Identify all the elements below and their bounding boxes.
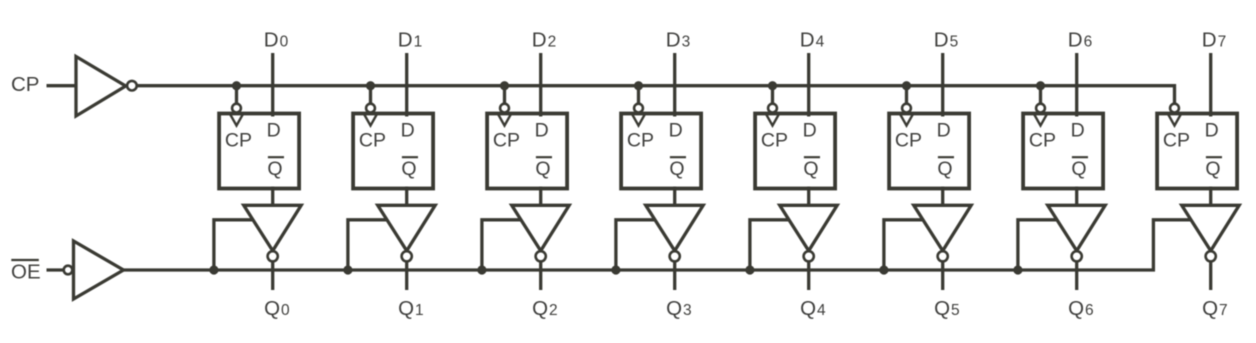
wire CP input (47, 84, 77, 87)
overbar on Q of FF1 (402, 156, 418, 158)
svg-text:CP: CP (493, 130, 520, 152)
wire Q4 output (807, 261, 810, 290)
svg-text:D: D (937, 120, 951, 142)
tri-state inverter T2 (512, 205, 570, 251)
tri-state inverter T6 (1048, 205, 1106, 251)
wire CP trunk (137, 86, 1175, 105)
wire clock branch 1 (369, 86, 372, 105)
svg-text:CP: CP (895, 130, 922, 152)
junction clock tap 6 (1036, 81, 1045, 90)
flip-flop FF2 body (487, 114, 567, 189)
svg-text:D: D (803, 120, 817, 142)
svg-text:Q: Q (267, 158, 282, 180)
svg-text:Q5: Q5 (934, 297, 960, 320)
svg-text:Q: Q (535, 158, 550, 180)
svg-text:D7: D7 (1202, 29, 1226, 52)
wire Q0 output (271, 261, 274, 290)
flip-flop FF0 body (219, 114, 299, 189)
svg-text:CP: CP (1163, 130, 1190, 152)
svg-text:D: D (669, 120, 683, 142)
flip-flop FF7 body (1157, 114, 1237, 189)
wire enable branch 2 (482, 220, 522, 270)
inversion bubble U1 output (127, 81, 137, 91)
svg-text:D: D (401, 120, 415, 142)
junction clock tap 2 (500, 81, 509, 90)
edge-trigger mark FF3 (632, 114, 645, 125)
svg-text:Q: Q (1071, 158, 1086, 180)
wire clock branch 0 (235, 86, 238, 105)
inversion bubble T2 output (536, 251, 546, 261)
svg-text:D0: D0 (264, 29, 289, 52)
inversion bubble FF0 clock (232, 104, 241, 113)
junction clock tap 3 (634, 81, 643, 90)
wire enable branch 5 (884, 220, 924, 270)
buffer U2 (OE driver) (74, 241, 124, 299)
svg-text:Q4: Q4 (800, 297, 826, 320)
wire enable branch 0 (214, 220, 254, 270)
inverter U1 (CP buffer) (76, 57, 126, 117)
flip-flop FF6 body (1023, 114, 1103, 189)
inversion bubble T1 output (402, 251, 412, 261)
wire FF3 Q-bar to buffer (673, 187, 676, 207)
wire Q3 output (673, 261, 676, 290)
wire D0 input (271, 53, 274, 117)
overbar on Q of FF5 (938, 156, 954, 158)
wire D3 input (673, 53, 676, 117)
wire Q6 output (1075, 261, 1078, 290)
edge-trigger mark FF5 (900, 114, 913, 125)
flip-flop FF5 body (889, 114, 969, 189)
inversion bubble T5 output (938, 251, 948, 261)
svg-text:Q: Q (669, 158, 684, 180)
tri-state inverter T5 (914, 205, 972, 251)
svg-text:D: D (535, 120, 549, 142)
junction clock tap 4 (768, 81, 777, 90)
overbar on Q of FF0 (268, 156, 284, 158)
edge-trigger mark FF0 (230, 114, 243, 125)
wire enable branch 4 (750, 220, 790, 270)
junction clock tap 0 (232, 81, 241, 90)
wire clock branch 5 (905, 86, 908, 105)
tri-state inverter T3 (646, 205, 704, 251)
edge-trigger mark FF4 (766, 114, 779, 125)
junction enable tap 5 (879, 265, 888, 274)
inversion bubble FF3 clock (634, 104, 643, 113)
junction enable tap 6 (1013, 265, 1022, 274)
wire D5 input (941, 53, 944, 117)
inversion bubble FF2 clock (500, 104, 509, 113)
svg-text:D3: D3 (666, 29, 690, 52)
svg-text:Q: Q (803, 158, 818, 180)
svg-text:D5: D5 (934, 29, 958, 52)
wire clock branch 3 (637, 86, 640, 105)
junction enable tap 1 (343, 265, 352, 274)
svg-text:Q: Q (1205, 158, 1220, 180)
svg-text:D1: D1 (398, 29, 422, 52)
overbar on Q of FF4 (804, 156, 820, 158)
svg-text:OE: OE (11, 261, 41, 284)
inversion bubble FF1 clock (366, 104, 375, 113)
wire enable branch 3 (616, 220, 656, 270)
wire D7 input (1209, 53, 1212, 117)
inversion bubble FF7 clock (1170, 104, 1179, 113)
wire Q1 output (405, 261, 408, 290)
wire FF1 Q-bar to buffer (405, 187, 408, 207)
tri-state inverter T7 (1182, 205, 1240, 251)
svg-text:D: D (267, 120, 281, 142)
inversion bubble FF6 clock (1036, 104, 1045, 113)
inversion bubble T0 output (268, 251, 278, 261)
wire FF0 Q-bar to buffer (271, 187, 274, 207)
junction enable tap 2 (477, 265, 486, 274)
inversion bubble T6 output (1072, 251, 1082, 261)
junction clock tap 5 (902, 81, 911, 90)
inversion bubble U2 input (64, 266, 73, 275)
overbar on Q of FF2 (536, 156, 552, 158)
svg-text:CP: CP (627, 130, 654, 152)
flip-flop FF1 body (353, 114, 433, 189)
svg-text:CP: CP (11, 73, 39, 96)
junction enable tap 4 (745, 265, 754, 274)
junction enable tap 0 (209, 265, 218, 274)
wire D1 input (405, 53, 408, 117)
svg-text:D2: D2 (532, 29, 556, 52)
wire FF7 Q-bar to buffer (1209, 187, 1212, 207)
wire Q2 output (539, 261, 542, 290)
svg-text:Q7: Q7 (1202, 297, 1228, 320)
svg-text:Q: Q (401, 158, 416, 180)
wire enable branch 6 (1018, 220, 1058, 270)
wire clock branch 2 (503, 86, 506, 105)
wire FF5 Q-bar to buffer (941, 187, 944, 207)
inversion bubble T7 output (1206, 251, 1216, 261)
svg-text:CP: CP (359, 130, 386, 152)
flip-flop FF4 body (755, 114, 835, 189)
svg-text:Q3: Q3 (666, 297, 692, 320)
svg-text:D: D (1071, 120, 1085, 142)
svg-text:D6: D6 (1068, 29, 1092, 52)
wire FF2 Q-bar to buffer (539, 187, 542, 207)
wire D4 input (807, 53, 810, 117)
tri-state inverter T4 (780, 205, 838, 251)
edge-trigger mark FF7 (1168, 114, 1181, 125)
svg-text:D: D (1205, 120, 1219, 142)
inversion bubble FF5 clock (902, 104, 911, 113)
svg-text:CP: CP (1029, 130, 1056, 152)
wire FF4 Q-bar to buffer (807, 187, 810, 207)
overbar on Q of FF7 (1206, 156, 1222, 158)
inversion bubble T4 output (804, 251, 814, 261)
wire OE input (47, 268, 64, 271)
overbar on OE label (11, 259, 39, 261)
tri-state inverter T1 (378, 205, 436, 251)
wire clock branch 6 (1039, 86, 1042, 105)
edge-trigger mark FF2 (498, 114, 511, 125)
wire clock branch 4 (771, 86, 774, 105)
edge-trigger mark FF6 (1034, 114, 1047, 125)
svg-text:CP: CP (761, 130, 788, 152)
edge-trigger mark FF1 (364, 114, 377, 125)
flip-flop FF3 body (621, 114, 701, 189)
svg-text:D4: D4 (800, 29, 825, 52)
inversion bubble FF4 clock (768, 104, 777, 113)
svg-text:Q2: Q2 (532, 297, 558, 320)
wire OE trunk (123, 220, 1192, 270)
inversion bubble T3 output (670, 251, 680, 261)
svg-text:Q0: Q0 (264, 297, 290, 320)
svg-text:Q: Q (937, 158, 952, 180)
tri-state inverter T0 (244, 205, 302, 251)
wire FF6 Q-bar to buffer (1075, 187, 1078, 207)
svg-text:Q6: Q6 (1068, 297, 1094, 320)
wire D6 input (1075, 53, 1078, 117)
overbar on Q of FF3 (670, 156, 686, 158)
wire enable branch 1 (348, 220, 388, 270)
junction enable tap 3 (611, 265, 620, 274)
wire Q7 output (1209, 261, 1212, 290)
wire Q5 output (941, 261, 944, 290)
junction clock tap 1 (366, 81, 375, 90)
overbar on Q of FF6 (1072, 156, 1088, 158)
svg-text:CP: CP (225, 130, 252, 152)
svg-text:Q1: Q1 (398, 297, 424, 320)
wire D2 input (539, 53, 542, 117)
